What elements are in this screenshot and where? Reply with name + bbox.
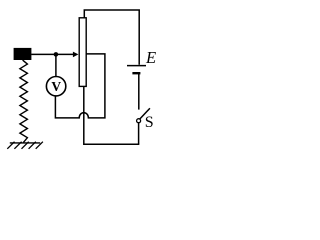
wire from switch to bottom	[138, 123, 140, 145]
wire node to voltmeter	[55, 54, 57, 76]
voltmeter bottom wire with hop over	[55, 54, 105, 118]
switch S pivot circle	[137, 119, 141, 123]
wire from battery to switch	[138, 73, 140, 109]
ground hatch 2	[14, 142, 21, 149]
ground hatch 1	[7, 142, 14, 149]
photocell electrode (black square)	[14, 48, 32, 60]
switch S lever	[140, 108, 150, 119]
ground hatch 3	[22, 142, 29, 149]
wire from resistor bottom	[83, 86, 85, 145]
wire from resistor top	[84, 10, 139, 65]
battery E short plate	[132, 72, 140, 74]
ground bar	[10, 142, 40, 144]
wire from square to wiper arrow	[31, 53, 73, 55]
svg-text:S: S	[145, 114, 154, 131]
node junction dot	[54, 52, 59, 57]
resistor zigzag to ground	[20, 60, 28, 143]
ground hatch 5	[36, 142, 43, 149]
svg-text:E: E	[145, 48, 156, 67]
wiper arrow head	[73, 52, 79, 58]
ground hatch 4	[29, 142, 36, 149]
voltmeter circle	[46, 77, 65, 96]
slide-wire resistor body	[79, 18, 86, 87]
bottom wire	[84, 143, 140, 145]
svg-text:V: V	[51, 79, 61, 94]
battery E long plate	[127, 65, 146, 67]
